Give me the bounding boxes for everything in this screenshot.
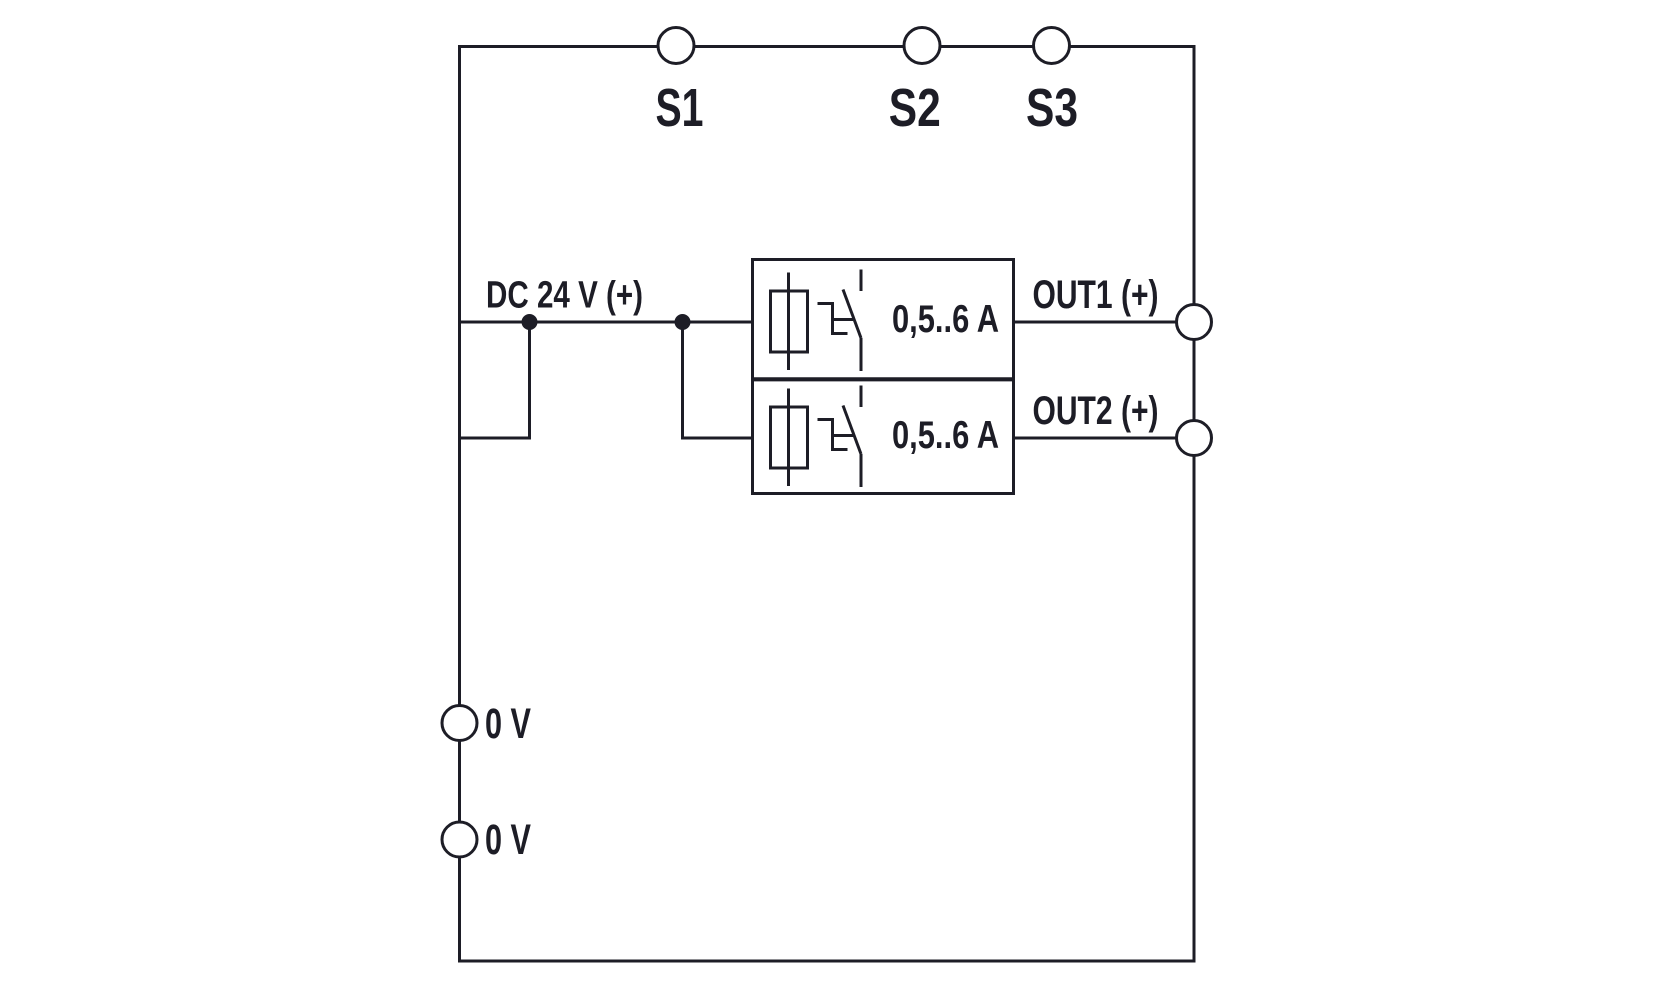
svg-text:OUT1 (+): OUT1 (+) <box>1033 273 1159 317</box>
svg-text:0 V: 0 V <box>485 701 531 748</box>
svg-text:OUT2 (+): OUT2 (+) <box>1033 389 1159 433</box>
svg-text:DC 24 V (+): DC 24 V (+) <box>486 275 643 317</box>
svg-text:S2: S2 <box>889 79 941 138</box>
svg-text:0,5..6 A: 0,5..6 A <box>892 298 999 341</box>
svg-text:0 V: 0 V <box>485 817 531 864</box>
svg-text:S1: S1 <box>656 79 704 138</box>
svg-text:S3: S3 <box>1026 79 1078 138</box>
svg-text:0,5..6 A: 0,5..6 A <box>892 414 999 457</box>
